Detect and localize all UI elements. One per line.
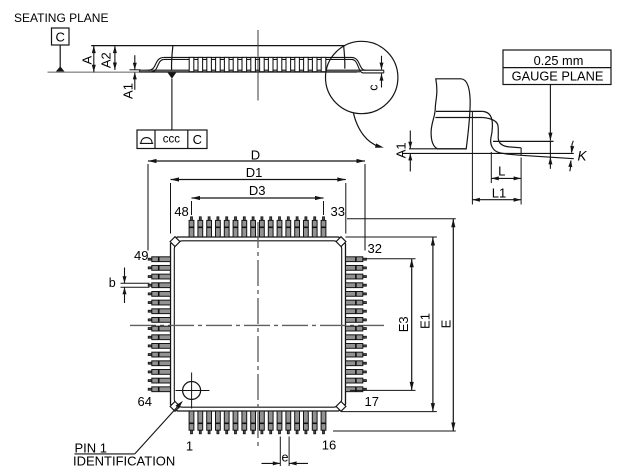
pin 62 (left side)	[148, 371, 152, 373]
svg-text:49: 49	[134, 248, 148, 263]
pin 27 (right side)	[363, 302, 367, 304]
svg-text:C: C	[56, 30, 65, 45]
pin 52 (left side)	[148, 284, 152, 286]
side view lead upper lines	[164, 56, 352, 58]
pin 23 (right side)	[363, 336, 367, 338]
svg-text:33: 33	[331, 204, 345, 219]
svg-text:64: 64	[138, 394, 152, 409]
pin 8 (bottom side)	[252, 430, 254, 434]
pin 20 (right side)	[363, 362, 367, 364]
svg-text:32: 32	[368, 241, 382, 256]
side view left end lead bend	[148, 57, 164, 70]
pin 59 (left side)	[148, 345, 152, 347]
pin 36 (top side)	[296, 217, 298, 221]
dimension D3	[191, 201, 193, 215]
svg-text:D3: D3	[249, 183, 266, 198]
pin 28 (right side)	[363, 293, 367, 295]
dimension c (lead thickness)	[381, 56, 383, 70]
pin 53 (left side)	[148, 293, 152, 295]
dimension A2	[114, 46, 116, 70]
pin 4 (bottom side)	[217, 430, 219, 434]
corner bevel top-left	[170, 237, 180, 247]
pin 17 (right side)	[363, 388, 367, 390]
detail lead bend outer line	[483, 111, 508, 154]
corner bevel bottom-left	[170, 402, 180, 412]
pin 60 (left side)	[148, 354, 152, 356]
dimension A1 (detail)	[409, 131, 411, 149]
top view inner surface outline	[174, 241, 341, 407]
pin 46 (top side)	[208, 217, 210, 221]
pin 24 (right side)	[363, 328, 367, 330]
pin 25 (right side)	[363, 319, 367, 321]
pin 40 (top side)	[261, 217, 263, 221]
dimension A	[93, 46, 95, 73]
vertical centerline	[257, 222, 259, 449]
pin 18 (right side)	[363, 380, 367, 382]
corner bevel bottom-right	[336, 402, 346, 412]
detail leadframe lines through body	[436, 110, 483, 112]
pin 51 (left side)	[148, 276, 152, 278]
pin 45 (top side)	[217, 217, 219, 221]
svg-text:E1: E1	[417, 313, 432, 329]
detail lead foot tip	[520, 148, 522, 156]
pin 33 (top side)	[323, 217, 325, 221]
dimension E	[347, 218, 456, 220]
pin 1 (bottom side)	[191, 430, 193, 434]
pin 7 (bottom side)	[243, 430, 245, 434]
svg-text:e: e	[282, 451, 289, 465]
pin 49 (left side)	[148, 258, 152, 260]
svg-text:E3: E3	[396, 316, 411, 332]
svg-text:A1: A1	[393, 142, 408, 158]
seating plane line	[48, 71, 358, 73]
detail leader curved arrow	[354, 113, 380, 147]
detail seating plane line	[402, 152, 574, 154]
svg-text:L1: L1	[492, 185, 506, 200]
ccc leader line	[171, 79, 173, 130]
detail body outline	[431, 79, 470, 149]
corner bevel top-right	[336, 237, 346, 247]
ccc feature control frame	[137, 130, 207, 149]
svg-text:ccc: ccc	[163, 134, 181, 146]
side view right end lead bend	[352, 57, 366, 70]
detail foot bottom	[506, 154, 521, 155]
svg-text:D1: D1	[246, 165, 263, 180]
pin 63 (left side)	[148, 380, 152, 382]
gauge plane line	[493, 140, 554, 142]
pin 56 (left side)	[148, 319, 152, 321]
pin 54 (left side)	[148, 302, 152, 304]
pin 3 (bottom side)	[208, 430, 210, 434]
pin 1 identification circle	[183, 382, 201, 400]
svg-text:E: E	[439, 319, 454, 328]
svg-text:GAUGE PLANE: GAUGE PLANE	[512, 68, 604, 83]
pin 5 (bottom side)	[226, 430, 228, 434]
pin 44 (top side)	[226, 217, 228, 221]
svg-text:A2: A2	[99, 52, 114, 68]
svg-text:0.25 mm: 0.25 mm	[534, 53, 584, 68]
pin 34 (top side)	[314, 217, 316, 221]
pin 11 (bottom side)	[279, 430, 281, 434]
svg-text:L: L	[498, 163, 505, 178]
pin 14 (bottom side)	[305, 430, 307, 434]
ccc datum leader triangle	[167, 72, 176, 78]
svg-text:16: 16	[322, 438, 336, 453]
dimension L1	[471, 112, 473, 205]
gauge pointer lower arrow	[549, 141, 551, 168]
pin 9 (bottom side)	[261, 430, 263, 434]
side view body left edge	[172, 46, 173, 71]
pin 12 (bottom side)	[287, 430, 289, 434]
detail body bottom line	[409, 148, 466, 150]
side view vertical centerline	[257, 30, 259, 101]
pin 42 (top side)	[243, 217, 245, 221]
pin 13 (bottom side)	[296, 430, 298, 434]
pin 58 (left side)	[148, 336, 152, 338]
pin 31 (right side)	[363, 267, 367, 269]
dimension e	[279, 437, 281, 467]
pin 55 (left side)	[148, 310, 152, 312]
pin 2 (bottom side)	[199, 430, 201, 434]
pin 30 (right side)	[363, 276, 367, 278]
pin 64 (left side)	[148, 388, 152, 390]
pin 48 (top side)	[191, 217, 193, 221]
svg-text:K: K	[577, 149, 587, 164]
dimension A1 (side view)	[130, 69, 141, 71]
K tilted foot line	[521, 155, 574, 158]
datum C leader and triangle	[59, 45, 61, 68]
pin 19 (right side)	[363, 371, 367, 373]
flatness symbol	[140, 138, 153, 144]
pin 38 (top side)	[279, 217, 281, 221]
dimension E3	[365, 258, 416, 260]
side view package top line	[91, 45, 345, 47]
svg-text:48: 48	[174, 204, 188, 219]
svg-text:IDENTIFICATION: IDENTIFICATION	[73, 453, 175, 468]
svg-text:1: 1	[186, 438, 193, 453]
pin 15 (bottom side)	[314, 430, 316, 434]
dimension D	[147, 164, 149, 251]
pin 6 (bottom side)	[235, 430, 237, 434]
gauge plane pointer line	[549, 85, 551, 133]
svg-text:SEATING PLANE: SEATING PLANE	[14, 11, 108, 25]
pin 43 (top side)	[235, 217, 237, 221]
pin 32 (right side)	[363, 258, 367, 260]
pin 1 identification leader	[75, 453, 135, 455]
pin 50 (left side)	[148, 267, 152, 269]
svg-text:A: A	[79, 56, 94, 65]
datum C symbol box	[52, 28, 70, 45]
detail circle	[326, 41, 398, 113]
side view body right edge	[344, 46, 345, 69]
svg-text:A1: A1	[120, 83, 135, 99]
dimension E1	[346, 236, 437, 238]
pin 29 (right side)	[363, 284, 367, 286]
pin 61 (left side)	[148, 362, 152, 364]
pin 35 (top side)	[305, 217, 307, 221]
horizontal centerline	[130, 324, 386, 326]
top view package body outline	[171, 237, 346, 411]
svg-text:D: D	[251, 148, 260, 163]
gauge plane label box	[503, 50, 611, 85]
side view lead bottom lines	[146, 69, 384, 71]
dimension D1	[170, 183, 172, 234]
pin 41 (top side)	[252, 217, 254, 221]
pin 10 (bottom side)	[270, 430, 272, 434]
svg-text:b: b	[109, 276, 116, 290]
detail lead bend inner line	[483, 118, 521, 148]
pin 22 (right side)	[363, 345, 367, 347]
svg-text:C: C	[193, 132, 202, 147]
dimension b	[121, 282, 150, 284]
pin 16 (bottom side)	[323, 430, 325, 434]
pin 21 (right side)	[363, 354, 367, 356]
pin 26 (right side)	[363, 310, 367, 312]
dimension L	[490, 152, 492, 183]
pin 47 (top side)	[199, 217, 201, 221]
svg-text:17: 17	[365, 394, 379, 409]
pin 39 (top side)	[270, 217, 272, 221]
pin 37 (top side)	[287, 217, 289, 221]
pin 57 (left side)	[148, 328, 152, 330]
side view far-side leads (ticks)	[189, 57, 194, 71]
svg-text:c: c	[366, 84, 380, 90]
